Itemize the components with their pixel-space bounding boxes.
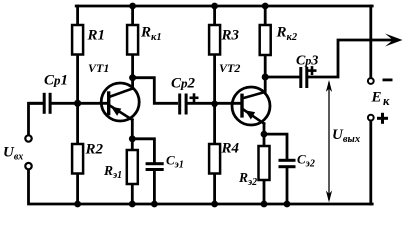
node ground Re2	[261, 201, 268, 208]
wire emitter2 to Ce2	[264, 134, 287, 159]
node VT2 emitter	[261, 131, 268, 138]
svg-text:R2: R2	[85, 142, 104, 158]
wire VT1 emitter diagonal	[110, 105, 133, 120]
terminal Ek plus	[368, 115, 374, 121]
svg-text:Ек: Ек	[371, 90, 391, 109]
svg-text:VT1: VT1	[88, 61, 109, 75]
wire R1 top lead	[76, 6, 79, 25]
svg-text:Ср2: Ср2	[171, 76, 196, 92]
svg-text:Сэ1: Сэ1	[166, 153, 184, 171]
wire Cp1 left lead	[29, 102, 43, 105]
wire collector node to Cp2	[133, 78, 177, 104]
wire R2 bottom lead	[76, 174, 79, 205]
terminal Ek minus	[368, 78, 374, 84]
svg-text:Ср1: Ср1	[44, 73, 68, 89]
wire R2 top lead	[76, 103, 79, 144]
wire Ce2 bottom lead	[286, 168, 289, 204]
node VT2 collector	[262, 74, 269, 81]
svg-text:Rэ2: Rэ2	[238, 170, 257, 188]
wire Cp3 to output corner	[308, 40, 396, 77]
wire lower input to ground rail	[29, 170, 373, 204]
svg-text:Rэ1: Rэ1	[103, 163, 122, 181]
capacitor Cp1	[43, 93, 52, 114]
wire VT2 collector diagonal	[244, 92, 266, 98]
wire VT2 emitter down	[263, 124, 266, 135]
wire VT1 emitter down	[131, 120, 134, 139]
wire emitter1 to Ce1	[132, 139, 154, 162]
resistor Re1	[127, 150, 138, 184]
wire Rk1 bottom lead / VT1 collector	[131, 55, 134, 89]
svg-text:Rк1: Rк1	[140, 25, 162, 44]
resistor R2	[72, 144, 83, 174]
output arrow right	[385, 34, 403, 47]
node top rail / Rk2	[262, 3, 269, 10]
wire R4 top lead	[213, 103, 216, 144]
resistor Rk1	[127, 25, 138, 55]
svg-text:Uвх: Uвх	[3, 145, 23, 163]
wire Rk2 top lead	[264, 6, 267, 25]
label plus sign Cp2	[190, 93, 199, 102]
svg-text:R3: R3	[221, 28, 240, 44]
wire VT1 collector diagonal	[110, 89, 133, 97]
svg-text:R1: R1	[87, 28, 106, 44]
node ground Ce1	[151, 201, 158, 208]
wire Cp1 to VT1 base	[51, 102, 108, 105]
wire Re1 bottom lead	[131, 184, 134, 204]
terminal input lower	[25, 163, 31, 169]
capacitor Cp2	[178, 94, 187, 115]
resistor R1	[72, 25, 83, 55]
wire R1 bottom lead to base node	[76, 55, 79, 104]
resistor Re2	[259, 146, 270, 180]
wire Rk2 bottom lead / VT2 collector	[264, 55, 267, 92]
node ground Re1	[129, 201, 136, 208]
node VT2 base	[211, 101, 218, 108]
node top rail / R3	[211, 3, 218, 10]
capacitor Ce1	[146, 162, 164, 171]
node VT1 base	[74, 100, 81, 107]
wire Cp2 to VT2 base	[188, 102, 242, 105]
node ground R2	[74, 201, 81, 208]
resistor R3	[209, 25, 220, 55]
resistor R4	[209, 144, 220, 174]
node ground Ce2	[284, 201, 291, 208]
wire R3 top lead	[213, 6, 216, 25]
node ground R4	[211, 201, 218, 208]
capacitor Cp3	[299, 67, 308, 88]
wire Re2 top lead	[263, 134, 266, 146]
wire Re2 bottom lead	[263, 180, 266, 204]
capacitor Ce2	[279, 159, 296, 168]
svg-text:Сэ2: Сэ2	[297, 152, 315, 170]
wire Rk1 top lead	[131, 6, 134, 25]
label minus sign	[383, 79, 393, 82]
node top rail / Rk1	[129, 3, 136, 10]
wire input to Cp1	[29, 103, 43, 134]
resistor Rk2	[260, 25, 271, 55]
transistor VT2	[232, 87, 270, 125]
transistor VT1	[101, 83, 139, 121]
terminal input upper	[25, 135, 31, 141]
label plus sign Cp3	[308, 66, 317, 75]
svg-text:R4: R4	[221, 141, 240, 157]
svg-text:VT2: VT2	[219, 61, 240, 75]
svg-text:Ср3: Ср3	[296, 54, 318, 69]
wire plus terminal to ground rail	[369, 122, 372, 204]
svg-text:Rк2: Rк2	[276, 25, 298, 44]
label plus sign Ek	[377, 113, 388, 124]
wire supply right down to minus terminal	[369, 6, 372, 77]
wire VT2 emitter diagonal	[244, 110, 265, 124]
wire R3 bottom lead	[213, 55, 216, 104]
Uout measuring arrow	[326, 80, 332, 203]
node VT1 collector	[129, 74, 136, 81]
wire Re1 top lead	[131, 139, 134, 150]
wire collector2 to Cp3	[265, 76, 299, 79]
wire top supply rail	[76, 5, 372, 8]
svg-text:Uвых: Uвых	[332, 127, 360, 145]
wire Ce1 bottom lead	[153, 171, 156, 204]
node VT1 emitter	[129, 135, 136, 142]
wire R4 bottom lead	[213, 174, 216, 205]
